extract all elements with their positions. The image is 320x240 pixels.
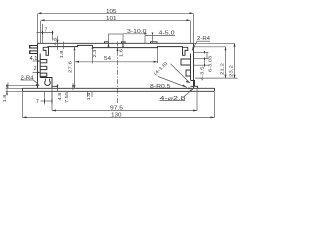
arrow 2 left	[37, 71, 40, 73]
ext line 101 left	[40, 21, 42, 43]
underline 4-dia2.8	[160, 99, 186, 101]
tick 7 bottom a	[44, 99, 45, 102]
ext 130 right	[214, 92, 216, 117]
right wall tab lower	[186, 70, 191, 76]
fin lip marks	[29, 46, 31, 53]
profile top outer surface	[38, 42, 194, 44]
boss bottom-left pad	[52, 86, 58, 88]
arrow (4-1.8) lower	[182, 85, 186, 88]
vertical dim 23.2	[234, 43, 236, 78]
dim 7 bottom line	[41, 100, 53, 102]
boss bottom-left screw channel	[45, 79, 51, 86]
profile top inner surface stepped	[48, 45, 184, 47]
tick 3-10.0 right	[122, 43, 124, 47]
left wall inner face	[39, 54, 41, 78]
arrow 105 right	[190, 12, 194, 14]
right wall inner face	[190, 54, 192, 81]
svg-text:4-5.0: 4-5.0	[159, 31, 175, 37]
top surface ridge 3	[151, 42, 158, 44]
right small ext y58.7	[194, 58, 209, 60]
arrow 23.2 top	[234, 43, 236, 47]
dim 2.3 vertical	[92, 45, 94, 63]
arrow 2-R4 right leader	[192, 47, 195, 51]
centerline	[117, 42, 119, 105]
screw boss bottom-left	[40, 78, 52, 89]
dim 4-5.0 right ext	[152, 36, 154, 44]
svg-text:97.5: 97.5	[110, 105, 123, 111]
dim 1.8 mid vertical	[63, 42, 65, 50]
svg-text:2-R4: 2-R4	[21, 75, 34, 81]
left wall external fin channel upper	[30, 46, 38, 49]
leader (4-1.8) upper	[171, 64, 191, 83]
arrow 130 left	[23, 116, 27, 118]
arrow 105 left	[38, 12, 42, 14]
svg-text:130: 130	[111, 112, 122, 118]
svg-text:23.2: 23.2	[229, 64, 234, 77]
svg-text:2-R4: 2-R4	[197, 36, 210, 42]
svg-text:105: 105	[106, 9, 117, 15]
svg-text:1.6: 1.6	[118, 48, 123, 57]
ticks right small dim	[204, 51, 205, 53]
screw boss bottom-right hook	[191, 81, 195, 87]
svg-text:3-10.0: 3-10.0	[127, 29, 147, 35]
tick 7 bottom b	[52, 99, 53, 102]
svg-text:27.6: 27.6	[68, 60, 73, 73]
dim 1.8 left vertical	[6, 84, 8, 96]
left wall external fin channel lower	[30, 51, 38, 54]
plate right edge	[214, 88, 216, 91]
underline 2-R4 left	[21, 79, 34, 81]
right small ext y65.2	[194, 64, 209, 66]
dim 7 bottom left ext	[44, 92, 46, 105]
ext line 101 right	[190, 21, 192, 43]
ext 97.5 right	[196, 89, 198, 111]
arrow bottom tick b	[72, 85, 74, 88]
arrow 21.2 bottom	[225, 75, 227, 79]
ext line 7 top right	[52, 33, 54, 41]
dim 4.6 vertical	[57, 36, 59, 50]
arrow 97.5 left	[52, 110, 56, 112]
arrow 130 right	[211, 116, 215, 118]
ext 1.8 left top	[6, 87, 23, 89]
svg-text:2.3: 2.3	[92, 49, 97, 58]
ext line 7 top	[42, 24, 44, 43]
left wall card-guide tab 2	[40, 66, 47, 69]
left wall card-guide tab 1	[40, 60, 47, 63]
left wall card-guide tab 3	[40, 73, 47, 76]
tick 4-5.0 right	[152, 33, 154, 36]
svg-text:54: 54	[104, 56, 111, 62]
arrow 1.6 up	[117, 48, 119, 51]
dim 3-10.0 line	[109, 33, 124, 35]
tick 7 top b	[52, 31, 53, 34]
dim line 105	[38, 12, 194, 14]
dim line 97.5	[52, 110, 197, 112]
svg-text:(4-1.8): (4-1.8)	[153, 60, 169, 76]
vertical dim 21.2	[225, 47, 227, 78]
svg-text:8-R0.5: 8-R0.5	[150, 84, 171, 90]
right top ext outer to 23.2	[194, 42, 235, 44]
leader 4-dia2.8	[185, 89, 194, 97]
arrow 97.5 right	[193, 110, 197, 112]
arrow 4-dia2.8	[190, 89, 194, 92]
svg-text:1.6: 1.6	[86, 92, 91, 101]
svg-text:1.8: 1.8	[2, 94, 7, 103]
svg-text:1.8: 1.8	[59, 50, 64, 59]
arrow 8-R0.5	[189, 87, 193, 89]
svg-text:4-3.5: 4-3.5	[200, 66, 205, 81]
right ext inner to 21.2	[194, 46, 226, 48]
svg-text:4.1: 4.1	[30, 56, 38, 62]
arrow 2.3 up	[92, 45, 94, 48]
leader 2-R4 right	[192, 41, 197, 50]
underline 3-10.0	[123, 33, 147, 35]
arrow 101 right	[187, 19, 191, 21]
svg-text:6-3.03: 6-3.03	[208, 55, 213, 72]
ext line 105 right	[193, 14, 195, 43]
ext line 105 left	[37, 14, 39, 43]
dim line 2 left	[33, 71, 41, 73]
plate left edge	[22, 88, 24, 91]
dim 7 bottom right ext	[51, 92, 53, 105]
top surface ridge 1	[105, 42, 109, 44]
dim 4-5.0 left ext	[144, 36, 146, 44]
bottom dim small line	[52, 85, 58, 87]
tick 4-5.0 left	[144, 33, 146, 36]
ext 97.5 left	[51, 89, 53, 111]
arrow 27.6 bottom	[74, 85, 76, 88]
leader (4-1.8) lower	[158, 77, 187, 88]
dim line 130	[23, 116, 215, 118]
arrow 2-R4 left leader	[36, 84, 40, 86]
svg-text:21.2: 21.2	[220, 62, 225, 75]
ext 54 right	[157, 48, 159, 63]
dim line 101	[41, 19, 191, 21]
svg-text:4.8: 4.8	[57, 92, 62, 101]
bottom dim tick b	[72, 83, 74, 90]
arrow 54 left	[75, 61, 79, 63]
top surface ridge 2	[122, 42, 126, 44]
right small vertical dim upper	[206, 52, 208, 58]
dim line 4.1	[33, 60, 41, 62]
right small vertical dim lower	[204, 59, 206, 65]
ext 1.8 left bottom	[6, 90, 23, 92]
arrow 27.6 top	[74, 47, 76, 50]
dim 27.6 vertical line	[74, 47, 76, 88]
dim 3-10.0 left ext	[108, 34, 110, 48]
underline 8-R0.5 and leader	[150, 88, 190, 90]
arrow 54 right	[154, 61, 158, 63]
svg-text:7: 7	[36, 99, 39, 105]
right wall tab upper	[181, 59, 191, 65]
bottom plate top surface	[23, 87, 215, 89]
arrow (4-1.8) upper	[186, 81, 190, 84]
dim 3-10.0 right ext	[122, 34, 124, 48]
ext 130 left	[22, 92, 24, 117]
arrow 21.2 top	[225, 47, 227, 51]
tick 7 top a	[42, 31, 43, 34]
bottom dim tick a	[57, 84, 59, 92]
underline 2-R4 right	[197, 40, 211, 42]
svg-text:2: 2	[34, 66, 37, 72]
arrow 4.1	[37, 60, 40, 62]
leader 2-R4 left horizontal	[8, 84, 37, 86]
dim line 7 top	[37, 32, 54, 34]
bottom 1.6 ticks	[88, 91, 93, 97]
leader 2-R4 left tick	[7, 83, 9, 89]
left wall outer face	[37, 43, 39, 88]
arrow 1.8 left up	[6, 85, 8, 88]
common bottom ext for 23.2/21.2	[195, 77, 238, 79]
arrow 4.6 down	[57, 40, 59, 44]
arrow 101 left	[41, 19, 45, 21]
arrow 1.8 left down	[6, 91, 8, 94]
boss bottom-right pad	[191, 86, 198, 88]
dim 54 line	[75, 61, 158, 63]
svg-text:4.6: 4.6	[53, 37, 58, 46]
svg-text:7.55: 7.55	[64, 91, 69, 103]
bottom plate bottom surface	[23, 90, 215, 92]
dim 4-5.0 line	[145, 35, 175, 37]
svg-text:7: 7	[45, 28, 48, 34]
tick 3-10.0 left	[108, 43, 110, 47]
leader 2-R4 left diagonal	[34, 80, 39, 84]
screw boss top-left	[43, 47, 49, 55]
screw boss top-right	[183, 47, 189, 55]
right small ext y52.3	[194, 51, 209, 53]
arrow 23.2 bottom	[234, 75, 236, 79]
svg-text:101: 101	[106, 16, 117, 22]
svg-text:4-⌀2.8: 4-⌀2.8	[160, 96, 186, 102]
arrow bottom tick a	[57, 85, 59, 88]
right wall outer face	[193, 43, 195, 88]
